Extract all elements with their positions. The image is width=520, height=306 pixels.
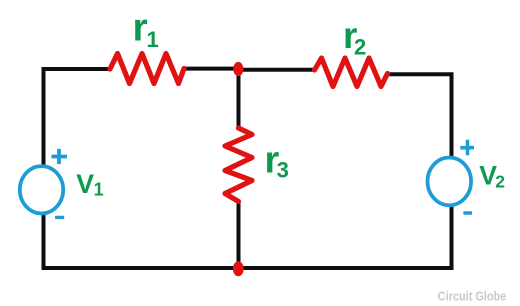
wire left vertical (42, 67, 46, 270)
label r3 (265, 139, 289, 182)
resistor r2 (315, 58, 388, 87)
svg-text:r: r (133, 7, 148, 50)
node B (bottom junction dot) (233, 261, 244, 276)
wire top-left horizontal (42, 67, 112, 71)
polarity - of V1 (55, 216, 64, 219)
wire bottom horizontal (42, 266, 454, 270)
wire right vertical (450, 72, 454, 268)
svg-text:1: 1 (147, 27, 159, 52)
label r1 (133, 7, 159, 53)
label V2 (479, 160, 505, 191)
polarity + of V2 (460, 140, 474, 155)
wire middle vertical lower (r3 to node B) (237, 200, 241, 268)
svg-text:1: 1 (94, 180, 104, 200)
wire middle vertical upper (node A to r3) (237, 69, 241, 130)
wire top horizontal (node A to r2) (239, 68, 316, 72)
polarity - of V2 (463, 211, 472, 214)
wire top-right horizontal (r2 to right corner) (387, 72, 450, 76)
svg-text:2: 2 (354, 35, 366, 60)
resistor r1 (110, 54, 184, 84)
resistor r3 (225, 128, 252, 202)
svg-text:2: 2 (495, 172, 505, 192)
label V1 (76, 169, 103, 200)
voltage source V2 (428, 158, 472, 206)
svg-text:V: V (76, 169, 94, 199)
label r2 (343, 15, 366, 60)
polarity + of V1 (51, 149, 67, 164)
svg-text:Circuit Globe: Circuit Globe (438, 289, 507, 304)
svg-text:3: 3 (277, 158, 289, 183)
wire top-middle horizontal (r1 to node A) (183, 67, 239, 71)
voltage source V1 (20, 166, 63, 213)
node A (top junction dot) (233, 62, 243, 76)
